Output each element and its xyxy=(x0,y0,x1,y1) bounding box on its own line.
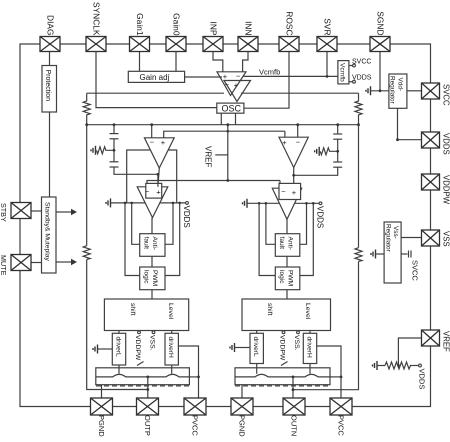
svg-text:DIAG: DIAG xyxy=(46,15,56,35)
wire right integrator plus input to VREF line xyxy=(284,131,286,137)
wire left long feedback lower xyxy=(87,259,148,389)
wire top chain pad-to-pad xyxy=(60,43,86,45)
wire Gain1 to Gain adj xyxy=(139,52,141,72)
diagonal mark right power box xyxy=(281,362,288,366)
node bus right feedback xyxy=(357,123,360,126)
wire PGND1 drop xyxy=(101,385,103,398)
pad PVCC (bottom) xyxy=(184,398,206,415)
wire VREF to comparators xyxy=(147,181,228,187)
op-amp right comparator xyxy=(272,188,301,219)
svg-text:driverL: driverL xyxy=(252,337,259,357)
arrow standby output 2 xyxy=(56,261,71,263)
svg-text:SVCC: SVCC xyxy=(442,84,450,106)
svg-text:driverH: driverH xyxy=(167,337,174,358)
wire DIAG to Protection xyxy=(49,52,51,66)
resistor left feedback (vertical) xyxy=(83,93,90,125)
svg-text:PGND: PGND xyxy=(238,415,247,437)
wire left long feedback down to output xyxy=(86,125,88,246)
wire vcmfb to SVCC terminal xyxy=(349,65,353,67)
svg-text:+: + xyxy=(292,188,297,197)
svg-text:−: − xyxy=(281,187,286,196)
hysteresis box left comparator xyxy=(146,183,162,198)
pad INN xyxy=(238,37,258,52)
terminal VDDPW right xyxy=(282,331,285,334)
resistor right feedback (vertical) xyxy=(355,93,362,125)
svg-text:PGND: PGND xyxy=(97,415,106,437)
level shift block right xyxy=(242,299,331,331)
svg-text:VREF: VREF xyxy=(204,146,213,167)
svg-text:−: − xyxy=(236,72,241,81)
gain adj block xyxy=(128,71,184,82)
svg-text:+: + xyxy=(161,138,166,147)
svg-text:Vcmfb: Vcmfb xyxy=(259,68,280,77)
svg-text:+: + xyxy=(282,138,287,147)
wire right long feedback lower xyxy=(293,261,359,389)
pwm logic block left xyxy=(140,267,165,290)
svg-text:Gain0: Gain0 xyxy=(172,13,182,36)
svg-text:logic: logic xyxy=(143,270,150,284)
driverH block left xyxy=(165,333,178,365)
gate stub driverL right xyxy=(256,364,258,374)
svg-text:Gain1: Gain1 xyxy=(135,13,145,36)
node OUTN feedback tap xyxy=(292,388,295,391)
pad OUTN (bottom) xyxy=(283,398,305,415)
wire right integrator minus stub xyxy=(297,125,299,138)
wire STBY pad to standby block xyxy=(31,210,42,212)
svg-text:VDDPW: VDDPW xyxy=(134,335,141,361)
svg-text:VDDS: VDDS xyxy=(352,75,372,82)
dashed bottom edge left power box xyxy=(96,385,189,387)
wire box edge to PVCC line xyxy=(189,376,198,378)
gate stub driverL left xyxy=(118,365,120,374)
wire level shift to driverH xyxy=(171,331,173,334)
node bus right integrator xyxy=(296,123,299,126)
svg-text:VDDS: VDDS xyxy=(182,206,191,228)
svg-text:VDDS: VDDS xyxy=(316,206,325,228)
svg-text:OUTP: OUTP xyxy=(143,415,152,436)
ground at left rail xyxy=(110,198,112,207)
svg-text:driverH: driverH xyxy=(306,337,313,358)
level shift block left xyxy=(104,299,188,331)
svg-text:ROSC: ROSC xyxy=(285,11,295,35)
node OUTP feedback tap xyxy=(146,388,149,391)
svg-text:Level: Level xyxy=(167,303,174,320)
driverL block right xyxy=(250,333,263,363)
wire pwm to level shift right xyxy=(286,290,288,299)
wire analog bus xyxy=(87,124,359,126)
pad OUTP (bottom) xyxy=(137,398,159,415)
ground at right filter xyxy=(318,147,320,156)
capacitor right C3 xyxy=(333,133,342,135)
node rail right A xyxy=(258,202,261,205)
wire Gain0 to Gain adj xyxy=(175,52,177,72)
input amp U1 triangle A xyxy=(217,72,246,96)
resistor right long feedback xyxy=(355,248,362,262)
ground at driverL left xyxy=(98,348,113,350)
ground at vss regulator xyxy=(376,253,385,255)
svg-text:OSC: OSC xyxy=(222,103,242,113)
svg-text:SGND: SGND xyxy=(376,11,386,35)
svg-text:SYNCLK: SYNCLK xyxy=(92,2,102,36)
wire top chain right corner to SVCC pad xyxy=(390,44,431,83)
wire level shift to driverH right xyxy=(309,331,311,334)
wire INP jog to input amp xyxy=(213,52,223,72)
wire OUTP drop xyxy=(147,377,149,398)
supply rail right channel xyxy=(248,202,320,204)
node rail left C xyxy=(172,202,175,205)
svg-text:PWM: PWM xyxy=(151,270,158,286)
pad PVCC (bottom) xyxy=(330,398,352,415)
standby-muteplay block xyxy=(42,197,57,273)
node rail left B xyxy=(130,202,133,205)
osc block xyxy=(217,103,244,113)
pad SVR xyxy=(317,37,337,52)
wire top chain left: DIAG to frame xyxy=(20,44,40,203)
pad SVCC (right) xyxy=(422,83,440,99)
svg-text:VDDS: VDDS xyxy=(442,133,450,155)
node bus left integrator xyxy=(150,123,153,126)
terminal VDDPW left xyxy=(138,331,141,334)
op-amp left integrator xyxy=(144,138,174,168)
wire SYNCLK down to OSC xyxy=(96,52,217,108)
arrow standby output 1 xyxy=(56,211,71,213)
wire left rail to pwm left xyxy=(125,203,140,276)
wire left cap chain top xyxy=(113,125,115,134)
wire box edge to PVCC right xyxy=(330,376,341,378)
wire MUTE pad to standby block xyxy=(31,262,42,264)
svg-text:Regulator: Regulator xyxy=(389,76,396,105)
terminal VSS right xyxy=(297,331,300,334)
wire between right caps xyxy=(337,139,339,162)
node OUTN xyxy=(292,376,295,379)
svg-text:MUTE: MUTE xyxy=(0,255,8,276)
svg-text:SVCC: SVCC xyxy=(411,260,420,281)
pad ROSC xyxy=(279,37,299,52)
wire bottom chain pad-to-pad xyxy=(113,406,137,408)
wire vcmfb to VDDS terminal xyxy=(349,81,353,83)
svg-text:Anti-: Anti- xyxy=(287,237,294,251)
wire anti-fault to pwm xyxy=(151,256,153,267)
pad STBY (left) xyxy=(11,203,31,219)
wire comparator input from integrator xyxy=(157,174,159,187)
svg-text:PVCC: PVCC xyxy=(191,415,200,436)
capacitor left C2 xyxy=(110,161,119,163)
wire Protection to Standby block xyxy=(49,112,51,197)
wire OSC stubs to bus xyxy=(220,113,222,125)
node SGND junction xyxy=(379,89,382,92)
wire right chain between pads xyxy=(430,99,432,132)
capacitor left C1 xyxy=(110,133,119,135)
ground at right rail xyxy=(246,199,248,208)
terminal VSS left xyxy=(152,331,155,334)
wire Vcmfb to SVR and Vcmfb box xyxy=(243,75,338,77)
svg-text:VSS.: VSS. xyxy=(293,335,300,351)
op-amp right integrator xyxy=(279,137,308,167)
svg-text:VREF: VREF xyxy=(442,331,450,352)
svg-text:Vss-: Vss- xyxy=(392,226,399,239)
node SVR junction xyxy=(326,75,329,78)
wire level shift to driverL xyxy=(118,331,120,334)
svg-text:VDDPW: VDDPW xyxy=(279,335,286,361)
wire left rail to pwm right xyxy=(165,203,180,276)
protection block xyxy=(42,66,57,113)
wire right long feedback down xyxy=(358,125,360,248)
ground at VREF divider xyxy=(376,361,378,370)
terminal VDDS left rail xyxy=(186,202,189,205)
svg-text:PWM: PWM xyxy=(287,270,294,286)
svg-text:Gain adj: Gain adj xyxy=(140,73,170,82)
svg-text:shift: shift xyxy=(129,303,136,316)
wire vss regulator to VSS pad xyxy=(401,237,421,239)
node PVCC right junction xyxy=(340,376,343,379)
svg-text:shift: shift xyxy=(266,303,273,316)
svg-text:STBY: STBY xyxy=(0,203,8,222)
wire vdd regulator to VDDS pad xyxy=(398,108,422,139)
wire VREF pad to divider xyxy=(398,338,421,366)
transistor pair left (drain line with humps) xyxy=(96,374,190,377)
wire left cap chain to integrator output xyxy=(114,167,158,174)
wire OSC to ROSC xyxy=(244,52,289,109)
wire VREF vertical xyxy=(227,125,229,181)
wire comparator to anti-fault xyxy=(151,218,153,234)
node rail right D xyxy=(312,202,315,205)
svg-text:Level: Level xyxy=(304,303,311,320)
node VREF junction xyxy=(226,179,229,182)
terminal VDDS right rail xyxy=(319,202,322,205)
op-amp left comparator xyxy=(137,187,168,218)
node rail left D xyxy=(178,202,181,205)
svg-text:VDDPW: VDDPW xyxy=(442,175,450,205)
dashed bottom edge right power box xyxy=(235,385,330,387)
driverH block right xyxy=(303,333,316,363)
node left filter mid xyxy=(113,149,116,152)
wire anti-fault to pwm right xyxy=(286,256,288,267)
wire SVR down xyxy=(326,52,328,77)
svg-text:INN: INN xyxy=(244,21,254,35)
wire left frame MUTE to bottom chain xyxy=(20,271,91,407)
svg-text:fault: fault xyxy=(143,237,150,250)
wire gain adj to input amp xyxy=(185,76,222,78)
wire left integrator output xyxy=(158,168,159,187)
wire left integrator plus input to VREF line xyxy=(164,131,285,138)
wire right rail to pwm right xyxy=(300,203,314,275)
power stage box left xyxy=(96,368,190,385)
node PVCC left junction xyxy=(197,376,200,379)
wire driverH right to PVCC drop xyxy=(178,346,198,398)
wire right cap chain top xyxy=(337,125,339,134)
resistor left filter (horizontal) xyxy=(97,147,114,154)
vdd regulator block xyxy=(389,74,407,108)
wire PGND2 drop xyxy=(241,385,243,398)
wire common-mode feedback line across xyxy=(87,92,224,94)
node VREF divider xyxy=(397,364,400,367)
node right integrator output xyxy=(292,174,295,177)
node vdd reg VDDS corner xyxy=(396,138,399,141)
svg-text:VSS: VSS xyxy=(442,231,450,247)
svg-text:OUTN: OUTN xyxy=(290,415,299,436)
wire left frame STBY-MUTE xyxy=(19,219,21,255)
wire SGND down xyxy=(379,52,381,91)
wire vss regulator to SVCC terminal xyxy=(401,253,407,255)
pwm logic block right xyxy=(275,267,300,290)
wire pwm to level shift xyxy=(151,290,153,299)
vss regulator block xyxy=(384,222,401,283)
node OUTP xyxy=(146,376,149,379)
svg-text:−: − xyxy=(150,138,155,147)
svg-text:Standby& Muteplay: Standby& Muteplay xyxy=(44,202,51,262)
wire left integrator minus input stub xyxy=(151,125,153,138)
wire right rail to anti-fault left xyxy=(266,203,275,244)
pad PGND (bottom) xyxy=(91,398,113,415)
resistor left long feedback xyxy=(83,246,90,260)
feedback box left integrator xyxy=(127,150,177,203)
svg-text:fault: fault xyxy=(278,237,285,250)
svg-text:logic: logic xyxy=(278,270,285,284)
wire right rail to anti-fault right xyxy=(300,203,307,244)
gate stub driverH left xyxy=(171,365,173,374)
node left integrator output xyxy=(157,173,160,176)
ground at driverL right xyxy=(235,347,251,349)
pad SGND xyxy=(370,37,390,52)
wire INN jog to input amp xyxy=(243,52,248,72)
wire to VDDS terminal bottom right xyxy=(413,365,419,367)
wire driverH right to PVCC drop right xyxy=(317,346,341,398)
power stage box right xyxy=(235,368,330,385)
svg-text:driverL: driverL xyxy=(115,337,122,357)
diagonal mark left power box xyxy=(137,362,144,366)
node bus VREF xyxy=(226,123,229,126)
input amp U1 triangle B xyxy=(224,81,251,102)
pad DIAG xyxy=(40,37,60,52)
transistor pair right (drain line with humps) xyxy=(235,374,330,377)
anti-fault block left xyxy=(140,234,165,257)
wire vdd regulator to SVCC pad xyxy=(407,90,422,92)
node right filter mid xyxy=(336,150,339,153)
anti-fault block right xyxy=(275,234,300,257)
gate stub driverH right xyxy=(309,364,311,374)
svg-text:+: + xyxy=(234,80,239,89)
svg-text:INP: INP xyxy=(209,22,219,36)
pad SYNCLK xyxy=(86,37,106,52)
supply rail left channel xyxy=(111,202,186,204)
wire level shift to driverL right xyxy=(256,331,258,334)
svg-text:Vdd-: Vdd- xyxy=(397,78,404,92)
node rail right C xyxy=(305,202,308,205)
node bus left caps xyxy=(113,123,116,126)
ground at SGND xyxy=(370,86,372,95)
driverL block left xyxy=(112,333,125,365)
pad INP xyxy=(203,37,223,52)
pad PGND (bottom) xyxy=(231,398,253,415)
svg-text:Protection: Protection xyxy=(44,70,51,102)
svg-text:+: + xyxy=(156,188,161,197)
wire left rail to anti-fault left xyxy=(132,203,140,244)
capacitor right C4 xyxy=(333,161,342,163)
wire right cap chain to integrator output xyxy=(294,167,338,175)
pad Gain1 xyxy=(130,37,150,52)
svg-text:Anti-: Anti- xyxy=(151,237,158,251)
wire left rail to anti-fault right xyxy=(165,203,173,244)
svg-text:Regulator: Regulator xyxy=(385,224,392,253)
wire right integrator output xyxy=(293,168,295,189)
node bus left feedback xyxy=(85,123,88,126)
vcmfb block xyxy=(338,61,349,84)
pad VDDPW (right) xyxy=(422,174,440,190)
svg-text:−: − xyxy=(145,187,150,196)
wire right chain VREF pad to bottom corner xyxy=(352,346,431,407)
svg-text:VSS.: VSS. xyxy=(149,335,156,351)
label VREF tick xyxy=(215,154,228,156)
node rail left A xyxy=(124,202,127,205)
pad VDDS (right) xyxy=(422,132,440,148)
svg-text:VDDS: VDDS xyxy=(418,369,427,390)
pad Gain0 xyxy=(166,37,186,52)
resistor right filter (horizontal) xyxy=(320,148,337,155)
svg-text:SVCC: SVCC xyxy=(352,59,371,66)
wire right comparator to anti-fault xyxy=(286,219,288,233)
node rail right B xyxy=(265,202,268,205)
pad VREF (right) xyxy=(422,330,440,346)
svg-text:−: − xyxy=(296,137,301,146)
node bus right caps xyxy=(336,123,339,126)
svg-text:SVR: SVR xyxy=(323,18,333,35)
ground at left filter xyxy=(95,146,97,155)
svg-text:PVCC: PVCC xyxy=(337,415,346,436)
wire between caps xyxy=(113,139,115,162)
svg-text:−: − xyxy=(225,80,230,89)
wire OUTN drop xyxy=(292,377,294,398)
pad MUTE (left) xyxy=(11,255,31,271)
hysteresis box right comparator xyxy=(279,183,301,199)
resistor VREF divider (horizontal) xyxy=(385,362,413,369)
pad VSS (right) xyxy=(422,230,440,246)
wire right rail to pwm left xyxy=(259,203,275,275)
svg-text:Vcmfb: Vcmfb xyxy=(339,63,346,82)
